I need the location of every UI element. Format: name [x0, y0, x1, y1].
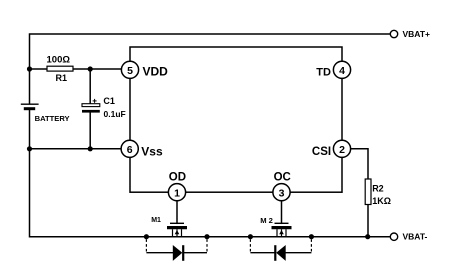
junction C1-R1 — [88, 66, 93, 71]
junction left-Vss — [27, 146, 32, 151]
wire R1 to VDD — [30, 68, 127, 70]
resistor R2 — [365, 179, 371, 205]
svg-text:0.1uF: 0.1uF — [104, 109, 126, 119]
svg-text:5: 5 — [127, 65, 133, 77]
junction M2 diode left — [248, 234, 253, 239]
svg-text:M 2: M 2 — [260, 216, 273, 225]
svg-text:2: 2 — [339, 144, 345, 156]
wire top rail VBAT+ — [30, 34, 391, 104]
pin 4 TD — [333, 61, 350, 78]
svg-text:1KΩ: 1KΩ — [372, 196, 391, 206]
resistor R1 — [47, 66, 73, 71]
svg-text:C1: C1 — [103, 96, 115, 106]
svg-text:TD: TD — [316, 66, 331, 78]
wire OD pin1 to M1 gate — [176, 192, 178, 223]
svg-text:OD: OD — [169, 172, 186, 184]
pin 2 CSI — [333, 140, 350, 157]
wire C1 branch lower — [89, 113, 91, 149]
svg-text:M1: M1 — [151, 217, 161, 224]
wire OC pin3 to M2 gate — [281, 192, 283, 223]
svg-text:100Ω: 100Ω — [47, 55, 71, 66]
diode D1 body diode of M1 — [146, 239, 207, 261]
pin 3 OC — [273, 184, 290, 201]
svg-text:1: 1 — [174, 188, 180, 200]
pin 6 Vss — [121, 140, 138, 157]
wire Vss rail — [30, 148, 127, 150]
svg-text:R2: R2 — [372, 184, 384, 194]
transistor M1 — [167, 223, 187, 236]
pin 5 VDD — [121, 61, 138, 78]
svg-text:Vss: Vss — [141, 144, 163, 158]
svg-text:OC: OC — [274, 172, 291, 184]
svg-text:R1: R1 — [56, 73, 68, 83]
battery BT1 — [21, 104, 39, 109]
junction M2 diode right — [309, 234, 314, 239]
IC U1 body outline — [130, 47, 342, 192]
svg-text:4: 4 — [339, 65, 345, 77]
junction M1 diode left — [144, 234, 149, 239]
svg-text:6: 6 — [127, 144, 133, 156]
svg-text:CSI: CSI — [312, 146, 331, 158]
junction R2-VBAT- — [365, 234, 370, 239]
svg-text:VBAT+: VBAT+ — [403, 29, 431, 39]
wire left rail lower — [30, 110, 391, 237]
diode D2 body diode of M2 — [250, 239, 311, 261]
wire CSI to R2 — [350, 149, 368, 179]
transistor M2 — [272, 223, 292, 236]
junction C1-Vss — [88, 146, 93, 151]
terminal VBAT- — [390, 233, 397, 240]
junction left-R1 — [27, 66, 32, 71]
wire C1 branch upper — [89, 69, 91, 104]
wire R2 to VBAT- rail — [367, 205, 369, 237]
terminal VBAT+ — [390, 30, 397, 37]
svg-text:BATTERY: BATTERY — [35, 114, 70, 123]
svg-text:VDD: VDD — [143, 64, 169, 78]
capacitor C1 — [82, 99, 100, 113]
svg-text:VBAT-: VBAT- — [403, 232, 428, 242]
junction M1 diode right — [204, 234, 209, 239]
pin 1 OD — [168, 184, 185, 201]
svg-text:3: 3 — [279, 188, 285, 200]
